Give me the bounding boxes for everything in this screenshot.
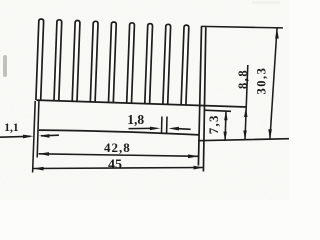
dimension 8,8 line	[245, 65, 248, 140]
step extension line 7,3	[204, 110, 231, 111]
fin F3	[72, 21, 80, 102]
fin F4	[90, 21, 98, 102]
dimension 1,1 right arrow shaft	[41, 134, 59, 137]
fin F9	[181, 25, 189, 105]
fin F1	[36, 19, 44, 100]
fin F2	[54, 20, 62, 101]
arrowhead 45 right	[194, 166, 204, 170]
base top line with 8,8 extension	[37, 100, 247, 107]
dimension 1,8 left shaft	[129, 127, 151, 129]
arrowhead 1,8 left	[150, 127, 160, 131]
dimension 1,8 tick a	[161, 117, 163, 134]
dimension 7,3 line	[224, 111, 227, 141]
arrowhead 1,1 left	[23, 135, 33, 139]
top extension line	[201, 26, 283, 28]
dimension 1,8 right shaft	[179, 128, 191, 131]
arrowhead 7,3 up	[224, 111, 228, 120]
svg-text:1,8: 1,8	[127, 112, 144, 127]
dimension 1,8 tick b	[166, 117, 168, 134]
arrowhead 7,3 down	[223, 132, 227, 141]
fin F7	[145, 24, 153, 104]
dimension 1,1 left arrow	[0, 135, 31, 138]
dimension 45 line	[33, 168, 204, 169]
scan noise top right	[252, 1, 280, 4]
arrowhead 1,8 right	[169, 127, 179, 131]
svg-text:1,1: 1,1	[4, 122, 19, 134]
arrowhead 1,1 right	[39, 134, 49, 138]
fin F8	[163, 24, 171, 104]
arrowhead 42,8 right	[188, 154, 198, 158]
svg-text:30,3: 30,3	[255, 67, 269, 95]
bottom edge of base	[39, 130, 199, 135]
arrowhead 30,3 down	[268, 129, 272, 139]
arrowhead 45 left	[33, 167, 43, 171]
fin F1 left edge extension	[33, 101, 36, 173]
fin F1 right edge extension	[37, 101, 39, 158]
svg-text:8,8: 8,8	[236, 69, 250, 89]
scan paper background	[0, 0, 289, 200]
fin F6	[127, 23, 135, 103]
dimension 42,8 line	[39, 154, 199, 157]
arrowhead 30,3 up	[275, 28, 279, 38]
svg-text:45: 45	[108, 157, 122, 172]
scan noise left edge blob	[3, 55, 7, 77]
right wall outer edge and 45 extension	[203, 27, 205, 171]
arrowhead 8,8 down	[243, 131, 247, 140]
fin F5	[109, 22, 117, 103]
arrowhead 42,8 left	[39, 152, 49, 156]
svg-text:42,8: 42,8	[104, 140, 131, 155]
arrowhead 8,8 up	[244, 108, 248, 117]
dimension 30,3 line	[270, 29, 277, 140]
bottom right extension line	[198, 139, 289, 141]
right wall left edge and 42,8 extension	[198, 26, 201, 165]
svg-text:7,3: 7,3	[206, 114, 221, 134]
